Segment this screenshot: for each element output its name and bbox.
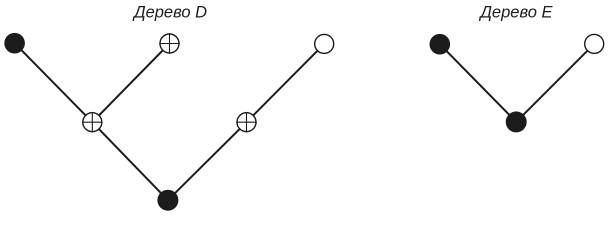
svg-text:Дерево D: Дерево D	[132, 4, 207, 22]
svg-text:Дерево E: Дерево E	[478, 4, 553, 22]
